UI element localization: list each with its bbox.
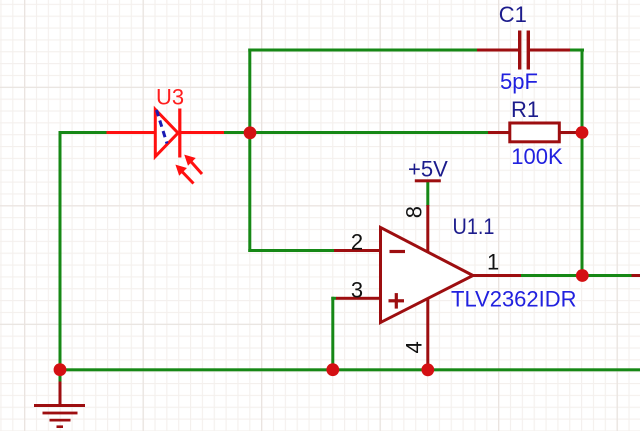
ground [34, 368, 85, 428]
junction pin4 rail [421, 363, 434, 376]
svg-text:2: 2 [351, 229, 363, 254]
junction R1 right [576, 126, 589, 139]
svg-text:3: 3 [351, 277, 363, 302]
wire top horizontal (feedback top) [248, 49, 477, 52]
wire left horizontal to diode [59, 131, 108, 134]
svg-text:5pF: 5pF [500, 69, 538, 94]
wire left vertical x=60 [59, 131, 62, 383]
wire cathode to R1 row [224, 131, 489, 134]
svg-text:100K: 100K [511, 144, 563, 169]
wire bottom rail [59, 368, 640, 371]
resistor R1 [488, 123, 582, 142]
wire pin3 riser [331, 297, 334, 371]
wire vertical node column x=250 [248, 49, 251, 253]
junction output [576, 269, 589, 282]
svg-text:R1: R1 [511, 97, 539, 122]
output edge stub [632, 274, 640, 277]
wire cap right short [570, 49, 584, 52]
junction node A (diode/R1/feedback) [244, 126, 257, 139]
wire right vertical x=582 [581, 49, 584, 278]
wire pin3 corner [331, 297, 336, 300]
svg-text:8: 8 [401, 206, 426, 218]
svg-text:4: 4 [401, 341, 426, 353]
junction ground corner [54, 363, 67, 376]
svg-text:+5V: +5V [408, 157, 448, 182]
op-amp U1 [334, 205, 521, 370]
svg-text:TLV2362IDR: TLV2362IDR [451, 286, 577, 311]
svg-text:1: 1 [487, 250, 499, 275]
svg-text:U3: U3 [156, 85, 184, 110]
wire +5V stub [426, 181, 429, 206]
wire output [521, 274, 632, 277]
capacitor C1 [477, 31, 570, 70]
photodiode U3 [107, 109, 225, 184]
svg-text:U1.1: U1.1 [453, 214, 495, 239]
+5V power bar [415, 179, 441, 182]
svg-text:C1: C1 [499, 2, 527, 27]
wire pin2 row [248, 249, 334, 252]
junction pin3 rail [326, 363, 339, 376]
